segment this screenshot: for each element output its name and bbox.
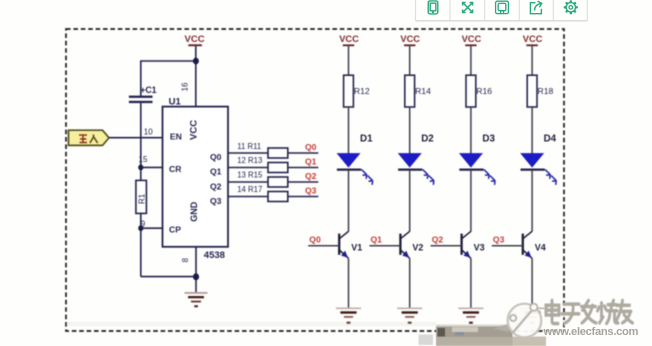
node VCC junction: [193, 58, 199, 65]
power VCC (branch 3): [462, 34, 482, 46]
wire D1 to V1 collector: [348, 171, 350, 232]
svg-text:Q3: Q3: [493, 235, 505, 245]
svg-text:D4: D4: [544, 133, 557, 144]
transistor V1: [339, 231, 362, 258]
wire bottom rail to ground node: [141, 276, 196, 278]
pin name EN: [170, 132, 182, 142]
pin name Q3: [210, 196, 222, 206]
resistor R18: [527, 75, 553, 107]
svg-text:+C1: +C1: [140, 85, 156, 95]
wire D3 to V3 collector: [470, 171, 472, 232]
svg-text:12 R13: 12 R13: [237, 156, 262, 165]
wire base of V2: [369, 245, 400, 247]
resistor R16: [466, 75, 492, 107]
svg-text:CR: CR: [169, 164, 182, 174]
wire base of V4: [492, 245, 523, 247]
svg-text:15: 15: [139, 155, 148, 164]
pin 10 number: [144, 127, 153, 136]
ground (branch 3): [458, 308, 483, 324]
svg-text:CP: CP: [169, 224, 181, 234]
pin name Q2: [210, 181, 222, 191]
svg-text:www.elecfans.com: www.elecfans.com: [543, 326, 639, 338]
pin name GND (rotated): [189, 201, 199, 222]
pin name CP: [169, 224, 181, 234]
pin 8 number: [181, 258, 190, 263]
svg-text:16: 16: [181, 82, 190, 91]
watermark url www.elecfans.com: [543, 326, 640, 339]
transistor V2: [400, 231, 423, 258]
wire C1 top to VCC node: [141, 61, 196, 96]
wire R18 to D4: [531, 107, 533, 154]
wire VCC to R12: [348, 46, 350, 75]
svg-text:R16: R16: [476, 86, 492, 96]
net label Q3: [305, 185, 317, 195]
pin 9 number: [141, 220, 146, 229]
wire VCC to R14: [409, 46, 411, 75]
svg-text:9: 9: [141, 220, 146, 229]
pin name VCC (rotated): [189, 120, 200, 140]
power VCC (branch 2): [400, 34, 420, 46]
svg-text:V4: V4: [535, 243, 546, 253]
svg-text:EN: EN: [170, 132, 182, 142]
toolbar icon: save: [496, 1, 509, 13]
resistor R14: [405, 75, 431, 107]
svg-text:Q3: Q3: [305, 185, 317, 195]
wire base of V3: [431, 245, 462, 247]
svg-text:11 R11: 11 R11: [237, 142, 261, 151]
pin 13 / resistor R15 label: [237, 171, 263, 180]
svg-text:GND: GND: [189, 201, 199, 222]
svg-text:Q0: Q0: [305, 142, 317, 152]
net label Q2 (base): [432, 235, 444, 245]
svg-text:R12: R12: [354, 86, 370, 96]
resistor R1: [136, 180, 147, 213]
pin 16 number: [181, 82, 190, 91]
pin name CR: [169, 164, 182, 174]
pin name Q1: [210, 167, 222, 177]
svg-text:VCC: VCC: [462, 34, 482, 44]
svg-text:R1: R1: [138, 193, 147, 204]
wire D4 to V4 collector: [531, 171, 533, 232]
svg-text:4538: 4538: [204, 250, 225, 261]
svg-text:Q3: Q3: [210, 196, 222, 206]
transistor V4: [523, 231, 546, 258]
svg-text:R18: R18: [538, 86, 554, 96]
ground (branch 2): [397, 308, 422, 324]
wire V3 emitter to ground: [470, 258, 472, 307]
svg-text:U1: U1: [169, 97, 182, 108]
wire to CR pin 15: [141, 166, 163, 168]
svg-text:D1: D1: [360, 133, 373, 144]
ground (U1): [185, 292, 208, 307]
svg-text:8: 8: [181, 258, 190, 263]
toolbar icon: share/export: [530, 1, 541, 14]
wire V4 emitter to ground: [531, 258, 533, 307]
svg-text:Q2: Q2: [432, 235, 444, 245]
wire Q3 output: [228, 196, 318, 198]
pin 14 / resistor R17 label: [237, 185, 262, 194]
power VCC (branch 4): [523, 34, 543, 46]
svg-text:V3: V3: [474, 243, 485, 253]
svg-text:Q0: Q0: [309, 235, 321, 245]
svg-text:VCC: VCC: [189, 120, 200, 140]
LED D3: [459, 133, 495, 185]
ground (branch 4): [520, 308, 545, 324]
svg-text:13 R15: 13 R15: [237, 171, 263, 180]
net label Q1: [305, 156, 317, 166]
blurred banner block: [419, 325, 547, 346]
svg-text:VCC: VCC: [523, 34, 543, 44]
LED D1: [337, 133, 373, 185]
svg-text:Q2: Q2: [305, 171, 317, 181]
LED D4: [521, 133, 557, 185]
svg-text:VCC: VCC: [185, 34, 205, 45]
svg-text:D3: D3: [482, 133, 495, 144]
svg-text:Q2: Q2: [210, 181, 222, 191]
svg-text:V2: V2: [412, 243, 423, 253]
node CP junction: [138, 225, 143, 231]
resistor R15: [268, 177, 288, 187]
pin 15 number: [139, 155, 148, 164]
resistor R12: [344, 75, 370, 107]
resistor R17: [268, 192, 288, 202]
wire C1 bottom rail down: [140, 103, 142, 180]
svg-text:VCC: VCC: [339, 34, 359, 44]
wire V1 emitter to ground: [348, 258, 350, 307]
svg-text:R14: R14: [415, 86, 431, 96]
wire R1 to CP rail: [140, 213, 142, 276]
LED D2: [398, 133, 434, 185]
wire Q2 output: [228, 181, 318, 183]
wire V2 emitter to ground: [409, 258, 411, 307]
ground (branch 1): [336, 308, 361, 324]
transistor V3: [462, 231, 485, 258]
wire VCC to pin 16: [195, 46, 197, 106]
schematic dashed border frame: [66, 29, 564, 331]
svg-text:Q1: Q1: [305, 156, 317, 166]
power VCC (branch 1): [339, 34, 359, 46]
svg-text:VCC: VCC: [400, 34, 420, 44]
resistor R11: [268, 148, 288, 158]
wire input to EN pin 10: [109, 137, 163, 139]
toolbar icon: settings gear: [564, 0, 578, 14]
node ground junction: [193, 273, 199, 280]
pin 11 / resistor R11 label: [237, 142, 261, 151]
pin name Q0: [210, 152, 222, 162]
wire R12 to D1: [348, 107, 350, 154]
svg-text:Q1: Q1: [210, 167, 222, 177]
pin 12 / resistor R13 label: [237, 156, 262, 165]
power VCC (U1 supply): [185, 34, 205, 46]
svg-text:Q1: Q1: [371, 235, 383, 245]
net label Q1 (base): [371, 235, 383, 245]
input port label (yellow arrow): [69, 130, 110, 145]
wire Q0 output: [228, 152, 318, 154]
watermark text 电子发烧友: [546, 300, 633, 324]
watermark logo circle: [494, 304, 542, 338]
toolbar icon: fullscreen expand: [463, 2, 473, 12]
op-amp U1 4538 IC body: [163, 97, 229, 261]
wire pin 8 to ground node: [195, 247, 197, 292]
svg-text:10: 10: [144, 127, 153, 136]
net label Q3 (base): [493, 235, 505, 245]
net label Q0 (base): [309, 235, 321, 245]
capacitor C1: [129, 85, 157, 103]
net label Q0: [305, 142, 317, 152]
wire D2 to V2 collector: [409, 171, 411, 232]
svg-text:D2: D2: [421, 133, 434, 144]
wire R14 to D2: [409, 107, 411, 154]
wire Q1 output: [228, 167, 318, 169]
svg-text:Q0: Q0: [210, 152, 222, 162]
net label Q2: [305, 171, 317, 181]
toolbar icon: mobile preview: [428, 1, 438, 14]
faint smudge band above bottom border: [66, 322, 436, 326]
svg-text:V1: V1: [351, 243, 362, 253]
wire R16 to D3: [470, 107, 472, 154]
wire base of V1: [308, 245, 339, 247]
wire to CP pin 9: [141, 227, 163, 229]
node CR junction: [138, 165, 143, 171]
wire VCC to R16: [470, 46, 472, 75]
wire VCC to R18: [531, 46, 533, 75]
svg-text:14 R17: 14 R17: [237, 185, 262, 194]
toolbar frame: [416, 0, 588, 21]
resistor R13: [268, 163, 288, 173]
